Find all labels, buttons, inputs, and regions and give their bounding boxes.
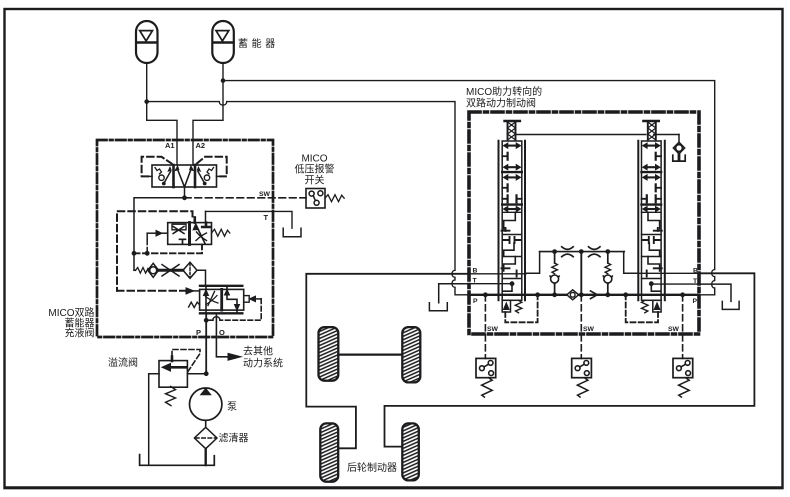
accumulator AC2 [212,21,234,63]
node C1 [552,249,557,254]
section2 tick pair [502,198,522,200]
spring stack bottom [515,300,522,313]
node P right tap [680,292,685,297]
svg-text:MICO: MICO [301,154,327,165]
unloader pilot dashed drop [146,233,148,240]
restrictor inline [159,269,183,272]
stack rails [499,141,526,301]
svg-text:P: P [693,298,698,305]
svg-text:A2: A2 [196,141,206,150]
wire O down and out [216,313,228,357]
stack end cap [502,300,510,312]
charging pilot dashed loop [220,299,261,320]
pressure switch SW-alarm [306,189,325,209]
section1 arrow2 [506,166,519,168]
wire B right [385,273,755,446]
svg-text:SW: SW [259,191,271,198]
svg-text:去其他: 去其他 [243,345,273,358]
node P left tap [483,292,488,297]
charging spool left cell passage [205,286,207,314]
svg-text:泵: 泵 [227,401,237,413]
spring alarm switch [325,195,344,202]
filter inline diamond [183,262,197,278]
node P center tap [579,292,584,297]
shuttle valve body [152,165,217,187]
charging spool bottom bars [200,312,242,314]
wire supply left circuit y101 [147,102,470,295]
svg-text:B: B [473,268,478,275]
spring relief valve [166,386,176,405]
rear wheel right [402,423,419,480]
section3 arrow [506,208,519,210]
node J1 acc1 junction [144,99,149,104]
node J2 acc2 junction [221,78,226,83]
svg-text:动力系统: 动力系统 [243,357,283,370]
wire T left inside [469,283,512,285]
cell10 step passage [504,257,516,272]
node C4 [552,292,557,297]
rear wheel left [320,423,338,481]
wire relief return [149,374,159,465]
dashed pilot stack bottom [505,297,537,322]
charging spool body [200,289,244,310]
node C5 [605,292,610,297]
inner dashed enclosure charge valve [117,211,193,291]
wire T left [439,284,469,303]
wire filter to tank [204,449,206,465]
cell8 step passage [504,212,516,229]
node J3 shuttle outlet [184,187,186,198]
svg-text:SW: SW [668,326,680,333]
tank T4 right [722,301,739,309]
wire T line to tank [206,211,293,228]
arrow to other systems [228,353,241,360]
relief valve arrow [169,366,186,369]
accumulator AC1 [136,21,158,63]
svg-text:P: P [473,298,478,305]
charging pilot right stub [244,296,250,303]
wire P down [205,313,207,373]
wire supply right circuit y80 [223,81,715,295]
riser B out [526,252,540,274]
B land tick [516,271,518,277]
SW2 dashed drop [580,295,582,359]
link line actuators [516,134,680,136]
wire B left [306,274,469,449]
check valve branch right [607,252,609,263]
stack cell column [502,141,522,300]
shuttle valve V passages [177,169,184,188]
wire T right [699,284,731,301]
check valve branch left [554,252,556,263]
cell9 ticks and step [503,237,521,243]
svg-text:O: O [219,328,225,337]
unloader right cell arrow restrictor [197,226,206,244]
spring inline [136,268,150,274]
center gallery top line [540,251,625,253]
svg-text:B: B [693,268,698,275]
tank T2 [140,455,215,466]
cell11 T tick [503,284,512,292]
relief valve body [159,361,187,388]
wire pump to filter [205,420,207,427]
left spool stack group [499,121,540,322]
spring charging spool [189,302,200,307]
svg-text:MICO双路: MICO双路 [48,306,94,319]
wire SW sense dashed to alarm switch [185,197,307,199]
tank T1 [283,228,301,237]
tank T3 left [429,303,447,311]
brake valve dash-dot box [469,112,699,334]
diamond check P gallery [567,290,579,300]
check valve inline diamond [148,263,159,277]
center SW drop [580,252,582,295]
svg-text:A1: A1 [165,141,175,150]
cell dividers [502,212,522,278]
spring unloader [212,229,230,236]
front axle [338,354,402,356]
wire to filter string [134,269,136,271]
svg-text:充液阀: 充液阀 [65,327,95,340]
front wheel left [319,327,339,381]
section2 arrow [506,176,519,178]
charge valve dash-dot box [97,140,273,337]
node charging P junction [204,318,209,323]
unloader pilot arrow [147,232,156,234]
section1 tick [502,155,507,157]
charging spool top bars [200,285,242,287]
pressure switch SW1 [476,358,496,397]
relief pilot dashed [171,357,174,361]
svg-text:P: P [196,328,201,337]
svg-text:开关: 开关 [305,174,325,187]
wire accumulator1 drop [146,63,148,102]
breather check [678,135,680,143]
svg-text:后轮制动器: 后轮制动器 [347,461,397,474]
node C2 [579,249,584,254]
shuttle right check spring and ball [207,168,214,174]
svg-text:蓄能器: 蓄能器 [238,37,279,50]
shuttle valve dashed enclosure [142,157,227,177]
wire B right inside [637,272,699,274]
charging pilot left dashed arrow [117,290,186,292]
filter diamond [194,427,217,448]
wire T right inside [651,283,699,285]
front wheel right [402,327,420,382]
pump [190,388,222,420]
svg-text:低压报警: 低压报警 [295,163,335,176]
pressure switch SW3 [673,358,693,397]
wire unloader top to T line [205,211,207,222]
section2 tick [502,187,507,189]
svg-text:SW: SW [583,326,595,333]
pressure switch SW2 [572,358,592,397]
svg-text:MICO助力转向的: MICO助力转向的 [466,85,542,98]
wire B left inside [469,273,526,275]
svg-text:T: T [264,213,269,222]
right spool stack mirrored [623,121,664,322]
section1 arrow [506,145,519,147]
svg-text:溢流阀: 溢流阀 [108,356,138,369]
P gallery [470,294,699,296]
svg-text:滤清器: 滤清器 [219,432,249,445]
unloader sense dashed line [134,244,202,253]
node T in stack [510,281,515,286]
unloader left cell pocket and X [172,224,186,230]
wire accumulator2 drop [193,63,223,165]
wire filter to charging spool [197,270,206,286]
node C3 [605,249,610,254]
charging spool right cell passage [227,286,237,314]
shuttle left check spring and ball [155,168,162,174]
node P pilot tap [535,292,540,297]
svg-text:SW: SW [487,326,499,333]
wire shuttle outlet to left [134,198,185,270]
unloader valve body [168,223,212,245]
hose arcs left [562,247,574,257]
hose arcs right [589,247,601,257]
SW1 dashed drop [484,295,486,359]
node relief tee [187,373,206,375]
SW3 dashed drop [682,295,684,359]
actuator pedal left [505,120,520,123]
chevron flow mark [591,291,598,299]
svg-text:双路动力制动阀: 双路动力制动阀 [466,97,536,110]
wire acc1 to A1 port [147,102,177,165]
